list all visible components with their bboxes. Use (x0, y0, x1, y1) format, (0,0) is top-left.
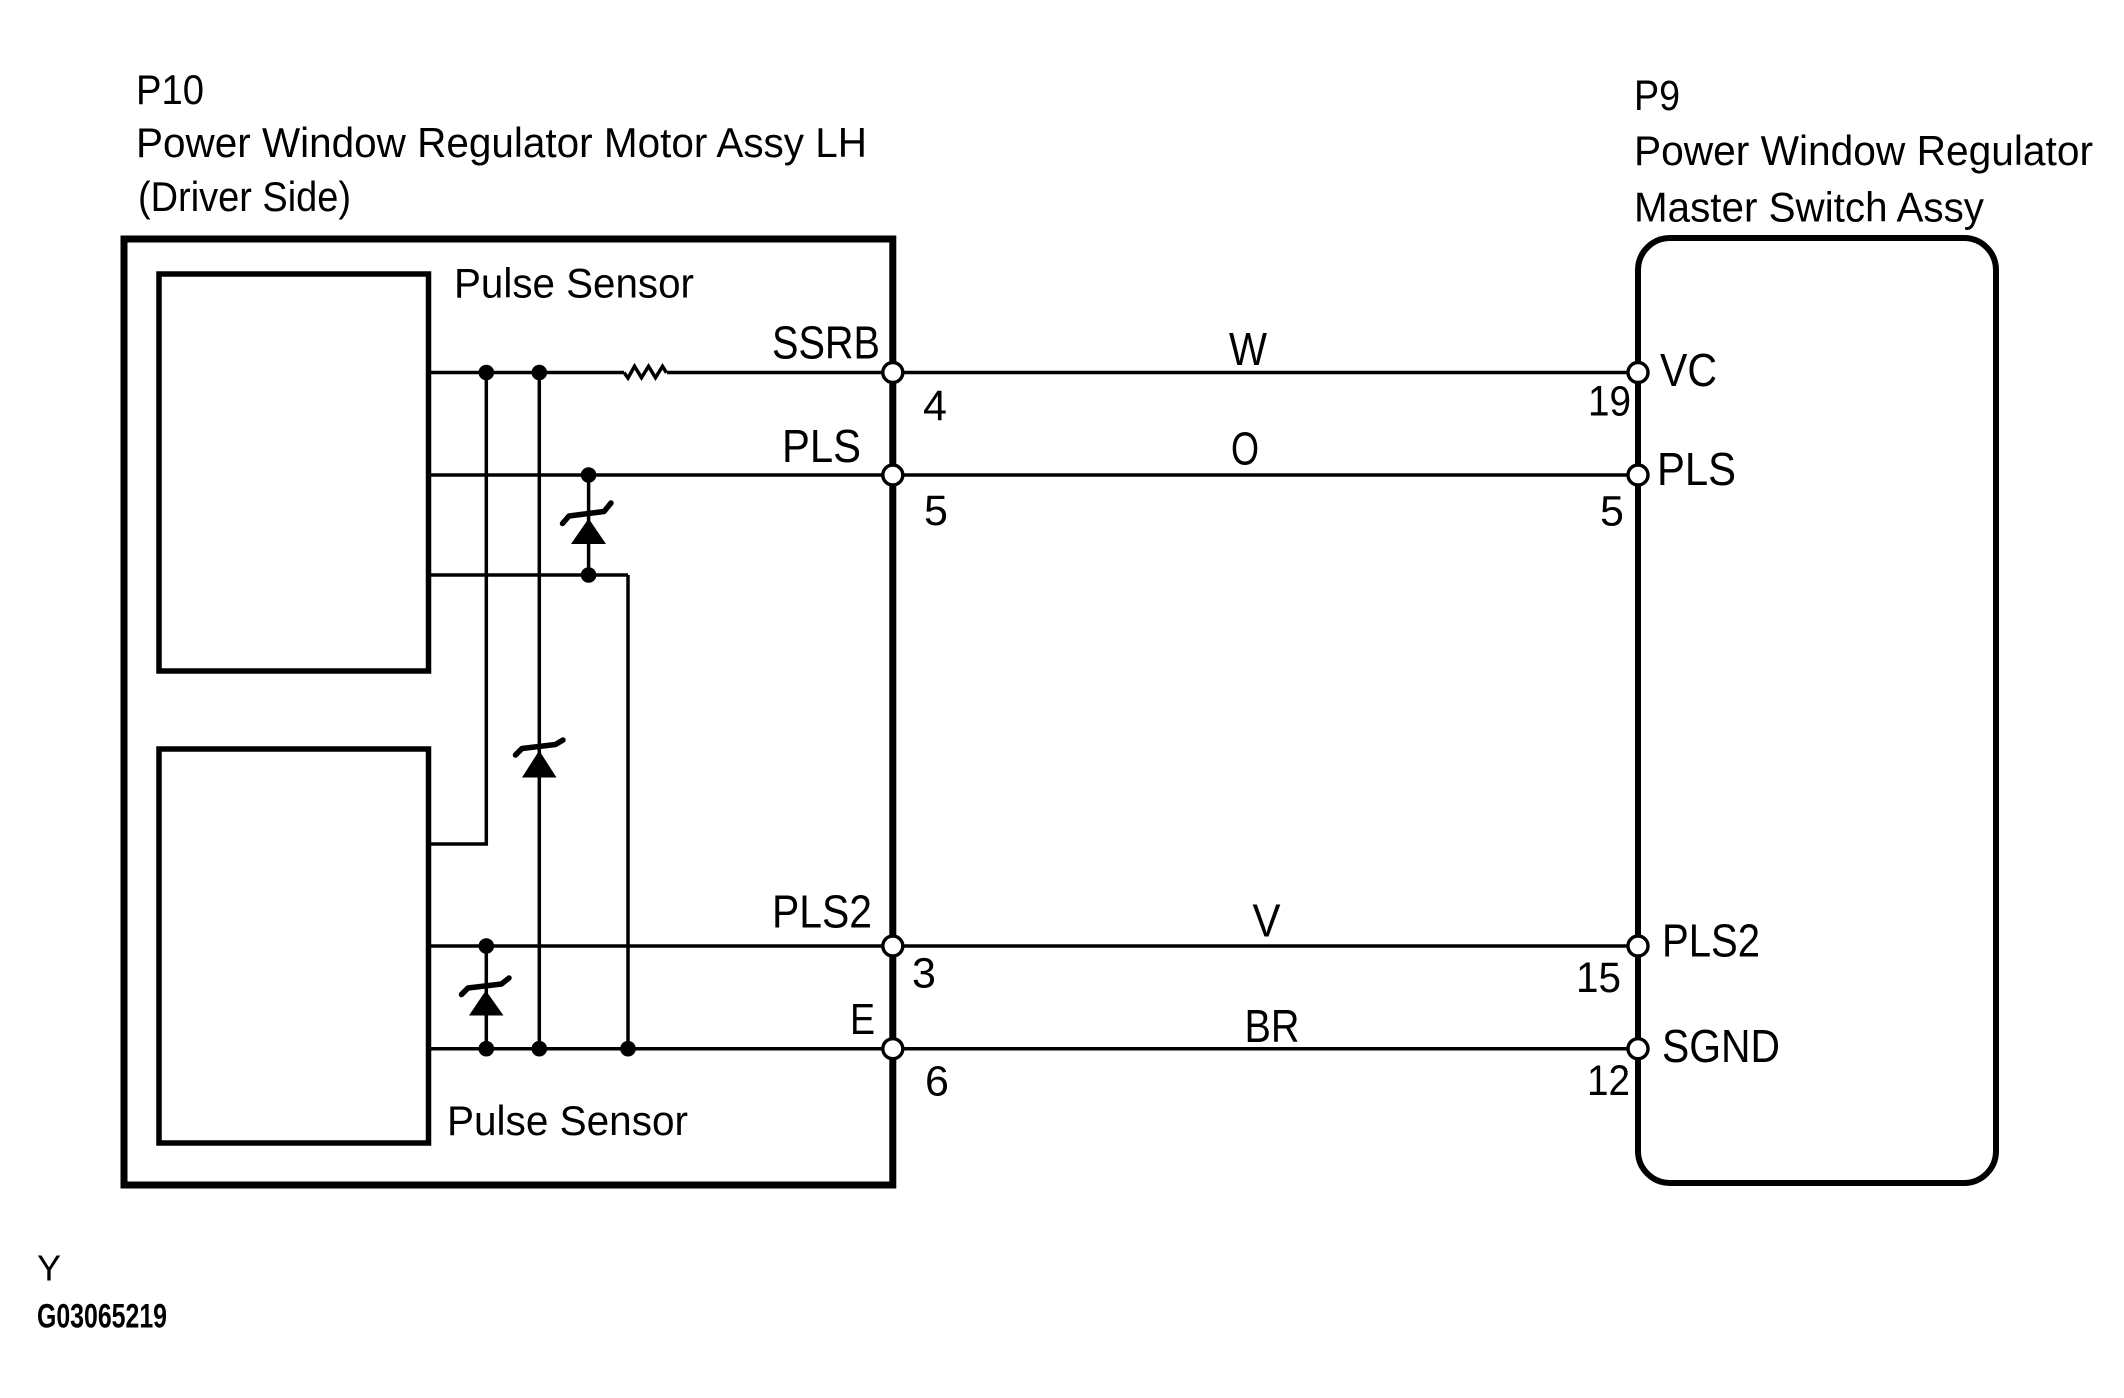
svg-text:Power Window Regulator Motor A: Power Window Regulator Motor Assy LH (136, 119, 867, 166)
svg-text:P9: P9 (1634, 72, 1680, 120)
svg-text:PLS: PLS (782, 420, 861, 472)
svg-text:PLS2: PLS2 (772, 886, 872, 938)
connector P10 outer box (Power Window Regulator Motor Assy LH) (124, 239, 893, 1185)
svg-text:W: W (1229, 323, 1267, 375)
svg-text:Power Window Regulator: Power Window Regulator (1634, 127, 2093, 174)
terminal pin 3 PLS2 on P10 (883, 936, 903, 956)
pulse sensor block 1 (top inner box) (159, 274, 429, 671)
junction dot on PLS2 at x=486 (479, 938, 495, 954)
wire E/BR net (427, 1047, 1638, 1051)
connector P9 title text (1634, 72, 2093, 231)
svg-text:6: 6 (925, 1058, 949, 1106)
terminal pin 12 SGND on P9 (1628, 1039, 1648, 1059)
junction dot on E at x=628 (620, 1041, 636, 1057)
svg-text:Y: Y (37, 1248, 61, 1289)
svg-text:P10: P10 (136, 66, 204, 113)
terminal pin 5 PLS on P10 (883, 465, 903, 485)
svg-text:5: 5 (1600, 488, 1624, 536)
terminal pin 6 E on P10 (883, 1039, 903, 1059)
svg-text:SSRB: SSRB (772, 317, 880, 369)
connector P9 box (Master Switch Assy, rounded) (1638, 238, 1996, 1183)
svg-text:5: 5 (924, 487, 948, 535)
svg-text:19: 19 (1588, 378, 1631, 426)
terminal pin 15 PLS2 on P9 (1628, 936, 1648, 956)
wire vertical through diode D1 (x=588.6) (587, 475, 591, 575)
junction dot on E at x=486 (479, 1041, 495, 1057)
wire PLS2/V net (427, 944, 1638, 948)
junction dot on PLS at x=588 (581, 467, 597, 483)
svg-text:Pulse Sensor: Pulse Sensor (454, 260, 694, 307)
svg-text:4: 4 (923, 382, 947, 430)
wire PLS/O net (427, 473, 1638, 477)
zener diode D2 (on x=539 branch) (516, 740, 564, 778)
terminal pin 4 SSRB on P10 (883, 363, 903, 383)
svg-text:V: V (1253, 895, 1281, 947)
svg-text:VC: VC (1660, 344, 1717, 396)
svg-text:3: 3 (912, 950, 936, 998)
resistor R1 (624, 366, 667, 378)
wire vertical branch from SSRB to sensor2 (x=486) (427, 373, 486, 845)
zener diode D3 (between PLS2 and E) (462, 978, 510, 1016)
svg-text:15: 15 (1576, 954, 1621, 1002)
connector P10 title text (136, 66, 867, 220)
terminal pin 5 PLS on P9 (1628, 465, 1648, 485)
svg-text:12: 12 (1587, 1057, 1630, 1105)
wire SSRB/W net: sensor1 to resistor (427, 371, 624, 375)
zener diode D1 (between PLS and internal node) (563, 503, 612, 544)
svg-text:Master Switch Assy: Master Switch Assy (1634, 184, 1984, 231)
svg-text:O: O (1231, 423, 1259, 475)
wire vertical through diode D3 (x=486) (485, 946, 489, 1049)
pulse sensor block 2 (bottom inner box) (159, 749, 429, 1143)
svg-text:PLS: PLS (1657, 443, 1736, 495)
junction dot on SSRB at x=539 (532, 365, 548, 381)
wire internal line y=575 from sensor1 (427, 573, 628, 577)
junction dot on E at x=539 (532, 1041, 548, 1057)
wire SSRB/W net: resistor to P9 pin 19 (667, 371, 1638, 375)
svg-text:Pulse Sensor: Pulse Sensor (447, 1097, 688, 1144)
svg-text:G03065219: G03065219 (37, 1298, 167, 1336)
junction dot at D1 bottom node (581, 567, 597, 583)
wire vertical x=628 from y=575 to E (626, 575, 630, 1049)
svg-text:BR: BR (1245, 1000, 1300, 1052)
svg-text:(Driver Side): (Driver Side) (138, 173, 351, 220)
junction dot on SSRB at x=486 (479, 365, 495, 381)
terminal pin 19 VC on P9 (1628, 363, 1648, 383)
svg-text:PLS2: PLS2 (1662, 915, 1760, 967)
svg-text:E: E (850, 996, 875, 1044)
wire vertical branch from SSRB to E (x=539) (538, 373, 542, 1049)
svg-text:SGND: SGND (1662, 1020, 1780, 1072)
